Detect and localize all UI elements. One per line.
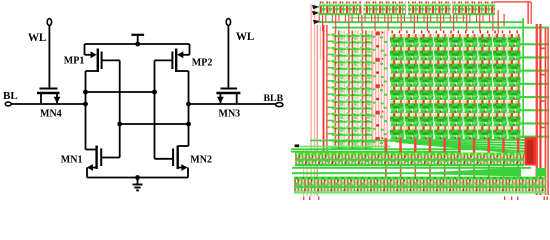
gate column left: [119, 60, 121, 157]
terminal WL left: [47, 19, 51, 26]
junction dots: [83, 42, 191, 180]
node dot B-BLB: [186, 102, 191, 107]
gate column right: [154, 60, 156, 158]
coupling wire B: [120, 123, 189, 125]
layout: top cell row: [319, 2, 362, 16]
layout: main cell array: [390, 34, 521, 139]
wire BL to node A: [11, 103, 85, 105]
svg-text:MP1: MP1: [64, 55, 85, 66]
svg-text:MN4: MN4: [40, 108, 62, 119]
ground rail: [87, 177, 188, 179]
coupling wire A: [86, 91, 155, 93]
svg-text:BLB: BLB: [264, 93, 284, 104]
transistor MP2: [155, 44, 190, 72]
node B vertical: [188, 71, 190, 146]
svg-text:MP2: MP2: [192, 57, 213, 68]
layout: left block rails: [323, 25, 325, 153]
svg-text:MN1: MN1: [61, 154, 83, 165]
VDD symbol: [131, 35, 144, 44]
transistor MN3 (pass, right): [216, 89, 240, 105]
layout: bottom cell rows: [295, 153, 524, 156]
wire WL left to MN4 gate: [48, 25, 50, 87]
transistor MN2: [155, 146, 189, 178]
node dot VDD: [135, 42, 140, 47]
node dot ground: [135, 175, 140, 180]
terminal BLB: [276, 103, 283, 107]
svg-text:MN2: MN2: [190, 154, 212, 165]
transistor MP1: [86, 49, 120, 73]
terminal BL: [5, 102, 11, 106]
op MP1 source lead: [85, 44, 97, 58]
svg-text:WL: WL: [236, 31, 254, 43]
node A vertical: [85, 71, 87, 150]
layout: left rail columns: [303, 150, 304, 196]
wire node B to MN3 and BLB: [189, 103, 276, 105]
layout: left cell block: [332, 31, 372, 150]
node dot A-BL: [83, 102, 88, 107]
layout: right power bars: [536, 24, 538, 195]
svg-text:MN3: MN3: [219, 109, 241, 120]
svg-text:BL: BL: [3, 90, 18, 102]
terminal WL right: [226, 19, 230, 26]
node dot gate col right: [152, 90, 157, 95]
node dot gate col left: [117, 122, 122, 127]
transistor MN1: [86, 146, 120, 178]
layout panel background: [291, 0, 550, 204]
svg-text:WL: WL: [28, 32, 46, 44]
transistor MN4 (pass, left): [37, 89, 60, 105]
wire WL right to MN3 gate: [227, 25, 229, 87]
node dot A-coupling: [83, 90, 88, 95]
layout: mid routing band: [390, 139, 527, 141]
VDD rail: [85, 43, 190, 45]
ground symbol: [133, 178, 143, 191]
node dot B-coupling: [186, 122, 191, 127]
